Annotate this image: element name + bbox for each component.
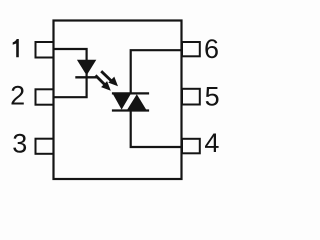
svg-text:3: 3 xyxy=(12,129,27,159)
svg-text:2: 2 xyxy=(10,81,25,111)
svg-text:5: 5 xyxy=(205,82,220,112)
svg-text:4: 4 xyxy=(204,128,219,158)
svg-text:6: 6 xyxy=(204,34,219,64)
